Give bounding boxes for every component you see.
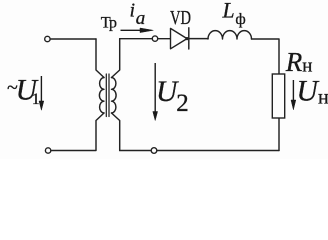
svg-text:Тр: Тр — [101, 12, 117, 31]
transformer core line right — [108, 74, 110, 117]
wire secondary top to diode — [120, 38, 171, 40]
wire primary top lead — [96, 39, 104, 78]
svg-text:2: 2 — [176, 90, 189, 117]
transformer core line left — [105, 74, 107, 117]
svg-text:н: н — [318, 87, 328, 109]
transformer Tr primary winding — [99, 78, 104, 114]
wire primary bottom lead — [51, 113, 104, 151]
svg-text:a: a — [136, 8, 146, 29]
wire bottom of secondary loop — [120, 150, 279, 152]
voltage arrow Un — [291, 80, 296, 110]
wire resistor bottom lead — [278, 118, 280, 151]
voltage arrow U2 — [153, 63, 158, 121]
diode VD cathode bar — [188, 28, 190, 49]
voltage arrow U1 — [39, 76, 44, 110]
svg-text:ф: ф — [235, 11, 245, 28]
current arrow i_a — [121, 28, 154, 33]
svg-text:i: i — [130, 0, 136, 22]
svg-text:1: 1 — [32, 91, 40, 108]
svg-text:U: U — [297, 76, 320, 108]
node on secondary bottom wire — [151, 148, 157, 154]
svg-text:VD: VD — [170, 7, 191, 29]
wire secondary top lead — [112, 39, 120, 78]
diode VD triangle — [171, 28, 189, 48]
inductor Lf winding — [208, 31, 252, 39]
svg-text:н: н — [302, 56, 312, 77]
svg-text:L: L — [222, 0, 235, 22]
wire secondary bottom lead — [112, 113, 120, 151]
wire diode to inductor — [189, 38, 208, 40]
transformer Tr secondary winding — [112, 78, 117, 114]
input terminal top-left — [45, 36, 50, 41]
resistor Rn body — [272, 74, 284, 118]
input terminal bottom-left — [45, 148, 50, 153]
wire inductor to resistor — [252, 39, 280, 74]
wire top-left from input terminal to transformer primary — [50, 38, 96, 40]
svg-text:R: R — [285, 47, 303, 77]
node on secondary top wire — [152, 36, 157, 41]
